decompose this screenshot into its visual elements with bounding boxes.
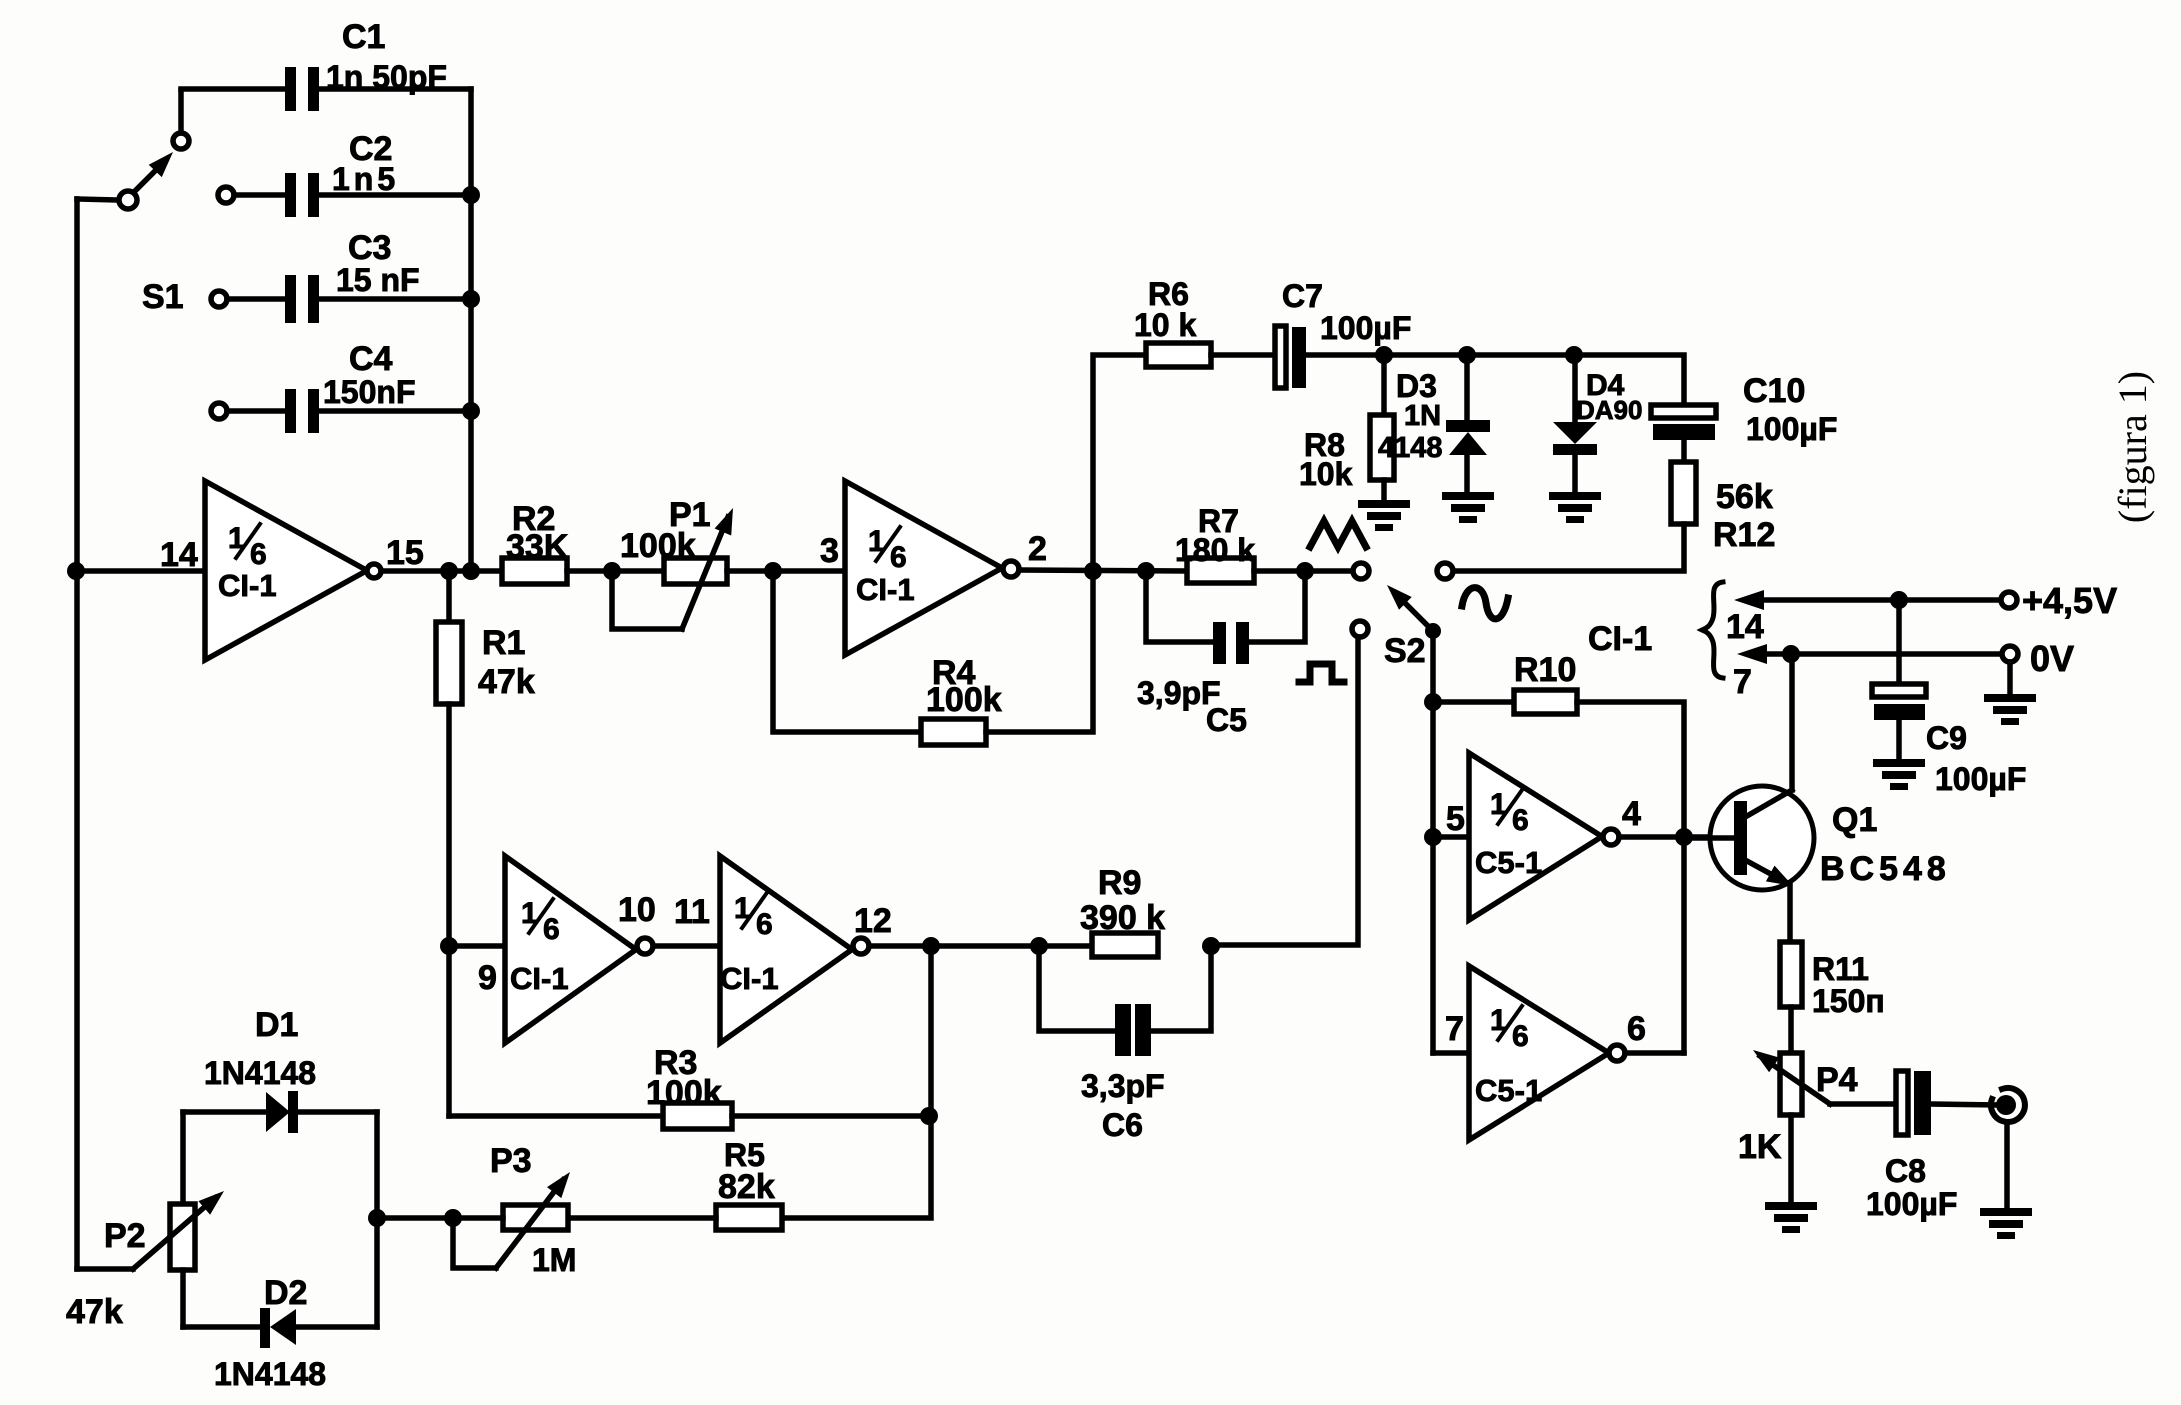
node C6 left — [1030, 937, 1048, 955]
svg-text:CI-1: CI-1 — [856, 572, 915, 607]
svg-text:S2: S2 — [1384, 632, 1426, 670]
node C6 right — [1202, 937, 1220, 955]
svg-text:D2: D2 — [264, 1274, 307, 1312]
ground P4 — [1765, 1202, 1817, 1233]
svg-text:Q1: Q1 — [1832, 801, 1877, 839]
potentiometer P1 100k — [612, 496, 733, 629]
wire inv4 output — [1619, 834, 1734, 840]
svg-text:10: 10 — [618, 891, 656, 929]
wire +4.5V rail — [1734, 590, 2001, 610]
ground C9 — [1873, 759, 1925, 790]
svg-text:10 k: 10 k — [1134, 307, 1196, 343]
wire P4 to ground — [1788, 1115, 1794, 1202]
svg-text:47k: 47k — [66, 1293, 123, 1331]
wire S2 pivot down — [1430, 639, 1436, 1053]
switch S2 sine contact — [1437, 563, 1453, 579]
inverter U1b pins 3-2 — [820, 481, 1047, 655]
svg-text:33K: 33K — [506, 528, 569, 566]
svg-text:R1: R1 — [482, 624, 525, 662]
wire left rail — [74, 199, 80, 1269]
node R7 right — [1296, 562, 1314, 580]
wire C8 to jack — [1931, 1104, 1997, 1105]
svg-text:100µF: 100µF — [1320, 310, 1411, 346]
svg-text:150nF: 150nF — [323, 374, 415, 410]
node R4 tap — [764, 562, 782, 580]
wire R1 down to lower chain — [446, 704, 452, 1116]
capacitor C1 — [285, 18, 447, 111]
ground D4 — [1549, 492, 1601, 523]
ground 0V — [1984, 694, 2036, 725]
svg-text:100k: 100k — [646, 1074, 722, 1112]
svg-text:100k: 100k — [620, 527, 696, 565]
node inv2 out join — [1084, 562, 1102, 580]
terminal 0V — [2002, 638, 2074, 694]
wire rail to P2 wiper — [77, 1266, 133, 1272]
capacitor C5 3.9pF — [1137, 571, 1305, 738]
wire inv7 input — [1433, 1010, 1469, 1053]
resistor R3 100k — [646, 1044, 732, 1129]
svg-text:BC548: BC548 — [1820, 850, 1951, 888]
svg-text:10k: 10k — [1299, 456, 1353, 492]
switch S2 triangle contact — [1353, 563, 1369, 579]
svg-text:7: 7 — [1445, 1010, 1464, 1048]
resistor R6 10k — [1134, 276, 1211, 367]
svg-text:100µF: 100µF — [1935, 761, 2026, 797]
node mid vertical top — [922, 937, 940, 955]
node bus-C2 — [462, 186, 480, 204]
resistor R10 — [1433, 651, 1684, 1053]
switch S1 — [119, 133, 189, 316]
svg-text:14: 14 — [160, 536, 198, 574]
svg-text:R12: R12 — [1713, 516, 1775, 554]
capacitor C10 100uF — [1651, 372, 1837, 447]
wire diode loop right — [374, 1112, 380, 1327]
capacitor C3 — [285, 229, 420, 323]
capacitor C7 100uF — [1275, 278, 1411, 388]
svg-text:15: 15 — [386, 534, 424, 572]
wire diode loop left lower — [180, 1270, 186, 1327]
wire R3 row — [449, 1113, 663, 1119]
svg-text:C10: C10 — [1743, 372, 1805, 410]
capacitor C9 100uF — [1872, 600, 2026, 797]
ground jack — [1980, 1208, 2032, 1239]
svg-text:9: 9 — [478, 959, 497, 997]
svg-text:1K: 1K — [1738, 1128, 1782, 1166]
wire P3 to diode loop — [377, 1215, 503, 1221]
svg-text:1n5: 1n5 — [332, 161, 399, 197]
wire rail to S1 pivot — [77, 199, 119, 200]
wire R7 to S2 — [1254, 568, 1353, 574]
svg-text:R10: R10 — [1514, 651, 1576, 689]
svg-text:180 k: 180 k — [1175, 532, 1255, 568]
svg-text:390 k: 390 k — [1080, 899, 1165, 937]
inverter U1c pins 9-10 — [505, 856, 656, 1043]
svg-text:12: 12 — [854, 902, 892, 940]
terminal +4.5V — [2001, 580, 2117, 621]
wire S1 top contact stem — [178, 91, 184, 133]
node top bus corner — [181, 86, 285, 92]
inverter U2b pins 7-6 — [1469, 966, 1646, 1140]
triangle wave symbol — [1310, 521, 1366, 547]
wire capacitor bus — [468, 89, 474, 571]
wire inv1 output — [381, 568, 502, 574]
caption figura 1 — [2110, 371, 2155, 523]
resistor R11 150 — [1780, 942, 1885, 1019]
svg-text:P4: P4 — [1816, 1061, 1858, 1099]
wire up to R6 — [1093, 355, 1146, 571]
switch S2 square contact — [1352, 621, 1368, 637]
svg-text:100µF: 100µF — [1746, 411, 1837, 447]
brace IC pins — [1702, 582, 1764, 701]
svg-text:CI-1: CI-1 — [218, 568, 277, 603]
wire inv2 output — [1019, 570, 1187, 571]
potentiometer P3 1M — [453, 1142, 576, 1278]
potentiometer P2 47k — [66, 1191, 224, 1331]
svg-text:CI-1: CI-1 — [510, 961, 569, 996]
wire R11 to P4 — [1788, 1007, 1794, 1053]
node R7 left — [1137, 562, 1155, 580]
node inv5 input — [1424, 828, 1442, 846]
inverter U1d pins 11-12 — [720, 856, 892, 1043]
svg-text:C8: C8 — [1885, 1153, 1926, 1189]
wire emitter down — [1787, 884, 1793, 942]
resistor R1 47k — [436, 571, 535, 704]
svg-text:6: 6 — [1512, 804, 1529, 837]
svg-text:6: 6 — [1512, 1020, 1529, 1053]
node bus join — [462, 562, 480, 580]
capacitor C6 3.3pF — [1039, 946, 1211, 1143]
wire R5 to P3 — [568, 1215, 716, 1221]
resistor R9 390k — [1080, 864, 1165, 957]
node C9 tap — [1890, 591, 1908, 609]
wire C1 to bus — [320, 86, 471, 92]
svg-text:D3: D3 — [1396, 368, 1437, 404]
resistor R2 33K — [502, 500, 569, 584]
wire P1 to inv2 — [727, 568, 845, 574]
svg-text:C5-1: C5-1 — [1475, 845, 1542, 880]
svg-text:4148: 4148 — [1378, 432, 1443, 464]
svg-text:56k: 56k — [1716, 478, 1773, 516]
ground R8 — [1358, 500, 1410, 531]
wire R2 to P1 — [567, 568, 664, 574]
svg-text:1M: 1M — [532, 1242, 576, 1278]
node inv9 input tap — [440, 937, 458, 955]
resistor R7 180k — [1175, 503, 1255, 583]
switch S2 wiper — [1384, 585, 1441, 670]
wire R6 to C7 — [1211, 352, 1277, 358]
wire R3 to mid vertical — [732, 1113, 929, 1119]
svg-text:C9: C9 — [1926, 720, 1967, 756]
wire C4 row — [211, 403, 471, 419]
svg-text:14: 14 — [1726, 608, 1764, 646]
svg-text:1N: 1N — [1404, 400, 1441, 432]
capacitor C8 100uF — [1866, 1071, 1957, 1222]
IC power label CI-1 — [1588, 620, 1652, 658]
square wave symbol — [1299, 664, 1344, 682]
wire C2 row — [218, 187, 471, 203]
svg-text:0V: 0V — [2030, 638, 2074, 679]
resistor R12 56k — [1671, 440, 1775, 554]
node R1 tap — [440, 562, 458, 580]
svg-text:100µF: 100µF — [1866, 1186, 1957, 1222]
wire square contact down — [1211, 637, 1358, 945]
svg-text:C6: C6 — [1102, 1107, 1143, 1143]
node R10 left — [1424, 693, 1442, 711]
svg-text:5: 5 — [1446, 800, 1465, 838]
wire inv9 to inv11 — [653, 893, 720, 946]
svg-text:+4,5V: +4,5V — [2022, 580, 2117, 621]
svg-text:R11: R11 — [1812, 951, 1869, 987]
wire P4 wiper to C8 — [1830, 1101, 1897, 1107]
wire jack to ground — [2004, 1122, 2010, 1208]
node diode loop join — [368, 1209, 386, 1227]
svg-text:CI-1: CI-1 — [1588, 620, 1652, 658]
resistor R8 10k — [1299, 355, 1394, 500]
svg-text:82k: 82k — [718, 1168, 775, 1206]
svg-text:C5: C5 — [1206, 702, 1247, 738]
node P3 tap — [444, 1209, 462, 1227]
node D4 tap — [1565, 346, 1583, 364]
svg-text:100k: 100k — [926, 681, 1002, 719]
inverter U2a pins 5-4 — [1469, 753, 1641, 920]
wire C7 to C10 rail — [1306, 355, 1684, 405]
svg-text:3: 3 — [820, 532, 839, 570]
output jack — [1991, 1088, 2025, 1122]
svg-text:R9: R9 — [1098, 864, 1141, 902]
svg-text:C4: C4 — [349, 340, 393, 378]
capacitor C2 — [285, 130, 399, 217]
svg-text:P3: P3 — [490, 1142, 532, 1180]
svg-text:47k: 47k — [478, 663, 535, 701]
wire C3 row — [211, 291, 471, 307]
wire mid vertical — [782, 946, 931, 1218]
svg-text:C5-1: C5-1 — [1475, 1073, 1542, 1108]
svg-text:6: 6 — [890, 541, 907, 574]
node bus-C3 — [462, 290, 480, 308]
svg-text:15 nF: 15 nF — [336, 262, 420, 298]
wire diode loop left upper — [180, 1112, 186, 1204]
svg-text:3,3pF: 3,3pF — [1081, 1068, 1165, 1104]
svg-text:(figura 1): (figura 1) — [2110, 371, 2155, 523]
svg-text:P2: P2 — [104, 1217, 146, 1255]
node collector tap — [1782, 645, 1800, 663]
node R3 right — [920, 1107, 938, 1125]
node D3 tap — [1458, 346, 1476, 364]
transistor Q1 BC548 — [1684, 654, 1951, 890]
diode D2 1N4148 — [183, 1274, 377, 1392]
svg-text:CI-1: CI-1 — [720, 961, 779, 996]
wire 0V rail — [1737, 644, 2002, 664]
svg-text:C7: C7 — [1282, 278, 1323, 314]
node Q1 base join — [1675, 828, 1693, 846]
svg-text:C1: C1 — [342, 18, 385, 56]
node bus-C4 — [462, 402, 480, 420]
svg-text:150п: 150п — [1812, 983, 1885, 1019]
node R8 tap — [1375, 346, 1393, 364]
diode D1 1N4148 — [183, 1006, 377, 1133]
wire inv9 input — [449, 946, 505, 997]
wire inv12 output — [869, 943, 1092, 949]
inverter U1a pins 14-15 — [205, 481, 424, 660]
svg-text:4: 4 — [1622, 795, 1641, 833]
node P1 tap — [603, 562, 621, 580]
svg-text:6: 6 — [756, 908, 773, 941]
node rail-inv1 input — [67, 562, 85, 580]
svg-text:S1: S1 — [142, 278, 184, 316]
svg-text:11: 11 — [674, 893, 710, 931]
svg-text:6: 6 — [250, 538, 267, 571]
wire R12 to sine contact — [1453, 524, 1684, 571]
potentiometer P4 1K — [1738, 1050, 1858, 1166]
svg-text:1N4148: 1N4148 — [214, 1356, 326, 1392]
wire inv6 output — [1625, 1050, 1684, 1056]
wire inv1 input — [77, 536, 205, 574]
svg-text:1N4148: 1N4148 — [204, 1055, 316, 1091]
svg-text:6: 6 — [543, 913, 560, 946]
svg-text:2: 2 — [1028, 530, 1047, 568]
resistor R5 82k — [716, 1137, 782, 1230]
ground D3 — [1442, 492, 1494, 523]
svg-text:6: 6 — [1627, 1010, 1646, 1048]
diode D3 1N4148 — [1378, 355, 1490, 492]
sine wave symbol — [1462, 588, 1508, 619]
capacitor C4 — [285, 340, 415, 433]
resistor R4 100k — [773, 571, 1093, 745]
svg-text:D1: D1 — [255, 1006, 298, 1044]
diode D4 DA90 — [1553, 355, 1642, 492]
svg-text:DA90: DA90 — [1576, 395, 1642, 425]
wire inv5 input — [1433, 800, 1469, 838]
svg-text:7: 7 — [1733, 663, 1752, 701]
